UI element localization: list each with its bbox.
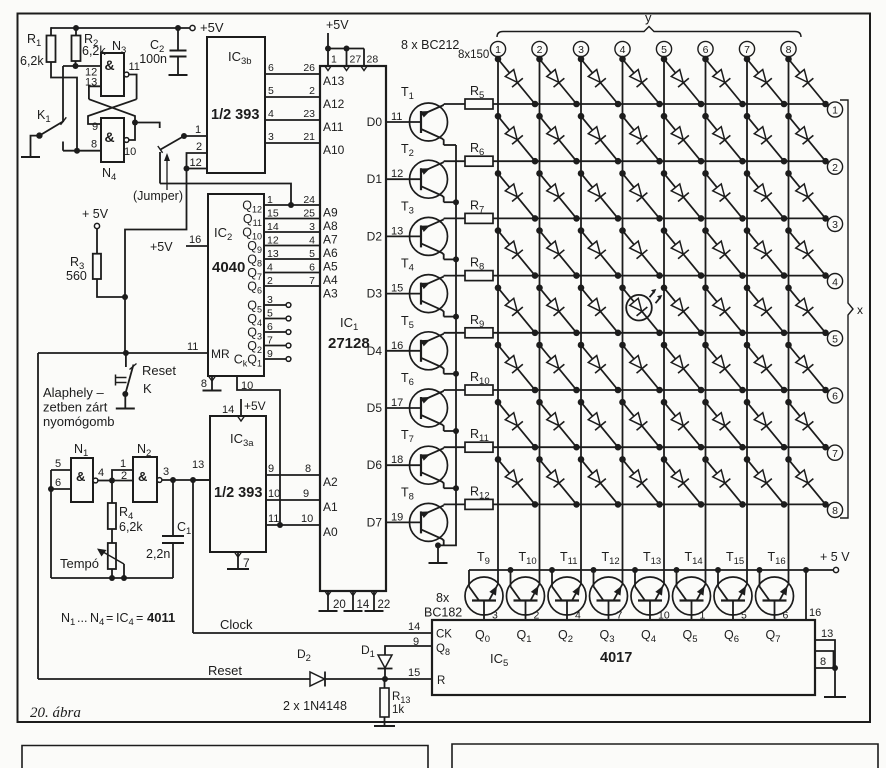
wire IC1 D6 (pin 18) to T7 base (386, 464, 421, 466)
node clock branch (190, 477, 196, 483)
IC U IC3b box (207, 37, 265, 173)
node pot wiper (121, 575, 127, 581)
LED row5 col8 (789, 288, 826, 333)
terminal column Y7 circled (739, 41, 754, 56)
svg-text:BC182: BC182 (424, 606, 462, 620)
svg-text:D1: D1 (367, 172, 383, 186)
svg-text:6: 6 (832, 391, 838, 403)
wire IC3b pin 5 to IC1 A12 (pin 2) (265, 96, 320, 98)
svg-text:14: 14 (357, 599, 370, 611)
wire IC3a pin9 to A2 (266, 474, 320, 476)
svg-text:4017: 4017 (600, 650, 632, 666)
svg-text:1: 1 (267, 194, 273, 206)
svg-text:(Jumper): (Jumper) (133, 189, 183, 203)
svg-text:12: 12 (190, 157, 202, 169)
svg-text:Reset: Reset (208, 663, 242, 678)
LED row4 col2 (540, 231, 577, 276)
svg-text:2 x 1N4148: 2 x 1N4148 (283, 699, 347, 713)
wire pin2/12 to reset net (125, 169, 187, 298)
LED row2 col1 (498, 116, 535, 161)
terminal column Y1 circled (490, 41, 505, 56)
transistor T7 BC212 (410, 446, 448, 484)
svg-text:23: 23 (303, 108, 315, 120)
wire IC2 Q8 to IC1 (pin 13 to 5) (264, 258, 320, 260)
LED row3 col3 (581, 173, 618, 218)
diode D1 (378, 655, 392, 668)
node N4 out / cross (132, 120, 138, 126)
transistor T16 BC182 (756, 577, 794, 615)
transistor T5 BC212 (410, 332, 448, 370)
svg-text:9: 9 (268, 463, 274, 475)
node T10 collector on +5V rail (508, 567, 514, 573)
transistor T12 BC182 (590, 577, 628, 615)
transistor T4 BC212 (410, 275, 448, 313)
svg-text:9: 9 (267, 348, 273, 360)
LED row3 col8 (789, 173, 826, 218)
svg-text:1: 1 (120, 458, 126, 470)
wire R2 top lead (75, 28, 77, 36)
wire T4 emitter to R8 (444, 275, 465, 277)
wire T1-T8 collector ground rail (438, 145, 456, 545)
svg-text:5: 5 (268, 85, 274, 97)
svg-text:560: 560 (66, 269, 87, 283)
svg-text:A2: A2 (323, 475, 338, 489)
svg-text:Tempó: Tempó (60, 556, 99, 571)
wire R3 bottom lead (97, 279, 125, 297)
svg-text:6: 6 (268, 62, 274, 74)
ground IC5 (824, 696, 846, 698)
svg-text:+ 5V: + 5V (82, 207, 109, 221)
resistor R10 (465, 385, 493, 395)
svg-text:15: 15 (391, 283, 403, 295)
svg-text:27128: 27128 (328, 335, 370, 352)
wire T2 emitter to R6 (444, 160, 465, 162)
LED row3 col1 (498, 173, 535, 218)
svg-text:5: 5 (832, 334, 838, 346)
terminal column Y5 circled (656, 41, 671, 56)
LED row4 col4 (623, 231, 660, 276)
node R2 / N3 pin 12 (73, 63, 79, 69)
LED row7 col7 (747, 402, 784, 447)
node T8 collector (435, 542, 441, 548)
svg-text:5: 5 (267, 308, 273, 320)
ground T1-T8 rail (429, 562, 448, 564)
ground reset button (116, 408, 135, 410)
resistor R13 1k (384, 679, 386, 688)
terminal row X3 circled (827, 216, 842, 231)
svg-text:2: 2 (196, 141, 202, 153)
node MR / reset button (123, 350, 129, 356)
ground C2 (169, 74, 188, 76)
wire IC3a pin11 to A0 (266, 524, 320, 526)
LED row3 col6 (706, 173, 743, 218)
node K1 common (36, 132, 42, 138)
transistor T2 BC212 (410, 160, 448, 198)
svg-text:A9: A9 (323, 206, 338, 220)
ground IC3a pin7 (227, 568, 249, 570)
svg-text:A1: A1 (323, 500, 338, 514)
svg-text:+5V: +5V (326, 18, 349, 32)
wire R2 bottom lead (75, 61, 77, 66)
svg-text:8: 8 (201, 378, 207, 390)
wire T6 emitter to R10 (444, 389, 465, 391)
ground IC1 pin14 (344, 610, 363, 612)
wire R3 top lead (96, 229, 98, 254)
svg-text:15: 15 (267, 208, 279, 220)
frame next-figure box right (cropped) (452, 744, 878, 768)
node IC3b pin12 corner (184, 166, 190, 172)
terminal +5V top-left (190, 25, 195, 30)
svg-text:13: 13 (267, 248, 279, 260)
wire cross A (N3 out to N4 pin 9) (88, 99, 137, 124)
gate N3 (4011 NAND) (101, 53, 124, 96)
pin N2 output 3 (157, 478, 162, 483)
svg-text:&: & (138, 469, 147, 484)
svg-text:4011: 4011 (147, 610, 175, 625)
wire IC2 Q7 to IC1 (pin 4 to 6) (264, 272, 320, 274)
node C1 branch (170, 477, 176, 483)
resistor R3 560 (93, 254, 101, 279)
svg-text:13: 13 (192, 459, 204, 471)
wire C2 top lead (177, 28, 179, 51)
svg-text:3: 3 (268, 131, 274, 143)
node IC1 pin1 +5V (325, 46, 331, 52)
LED row7 col3 (581, 402, 618, 447)
resistor R7 (465, 213, 493, 223)
svg-text:8: 8 (91, 139, 97, 151)
node D1 D2 R13 junction (382, 676, 388, 682)
wire N1 pin5 line (51, 469, 71, 471)
node IC3b pin1 / jumper (181, 133, 187, 139)
wire pot wiper to rail (123, 564, 125, 578)
capacitor C2 100n (170, 50, 187, 52)
svg-text:21: 21 (303, 131, 315, 143)
wire IC3b pin 3 to IC1 A10 (pin 21) (265, 142, 320, 144)
wire flipflop out to jumper contact (135, 123, 160, 129)
svg-text:A7: A7 (323, 233, 338, 247)
LED row8 col3 (581, 459, 618, 504)
svg-text:14: 14 (408, 621, 420, 633)
wire IC2 Q9 to IC1 (pin 12 to 4) (264, 245, 320, 247)
LED row1 col2 (540, 59, 577, 104)
LED row1 col6 (706, 59, 743, 104)
svg-text:6: 6 (309, 262, 315, 274)
wire oscillator bottom rail (51, 577, 173, 579)
svg-text:10: 10 (241, 380, 253, 392)
svg-text:2: 2 (309, 85, 315, 97)
node IC5 pin16 riser (803, 567, 809, 573)
svg-text:2: 2 (832, 162, 838, 174)
svg-text:+5V: +5V (150, 240, 173, 254)
LED row8 col5 (664, 459, 701, 504)
svg-text:nyomógomb: nyomógomb (43, 414, 115, 429)
pin IC2 Q5 open (pin 3) (264, 304, 286, 306)
svg-text:13: 13 (391, 225, 403, 237)
LED row1 col8 (789, 59, 826, 104)
node R3 / reset net (122, 294, 128, 300)
svg-text:12: 12 (267, 235, 279, 247)
pin N4 output 10 (124, 138, 129, 143)
wire IC3a pin10 to A1 (266, 499, 320, 501)
svg-text:7: 7 (309, 275, 315, 287)
svg-text:D4: D4 (367, 344, 383, 358)
svg-text:6,2k: 6,2k (20, 54, 44, 68)
pin IC2 8 ground (211, 376, 213, 391)
svg-text:1: 1 (832, 105, 838, 117)
svg-text:A11: A11 (323, 120, 344, 134)
svg-text:3: 3 (832, 219, 838, 231)
node T5 collector on ground rail (453, 371, 459, 377)
wire IC3b pin1 line (184, 135, 207, 137)
LED row5 col4 (623, 288, 660, 333)
LED row1 col7 (747, 59, 784, 104)
svg-text:7: 7 (243, 556, 250, 570)
svg-text:22: 22 (378, 599, 391, 611)
svg-text:A6: A6 (323, 246, 338, 260)
wire N1 out to N2 (98, 480, 112, 482)
pin IC1 bottom grounds (327, 591, 329, 611)
LED row8 col1 (498, 459, 535, 504)
LED row4 col8 (789, 231, 826, 276)
svg-text:4: 4 (309, 235, 315, 247)
LED row5 col5 (664, 288, 701, 333)
svg-text:3: 3 (267, 294, 273, 306)
IC U IC2 box (208, 194, 264, 376)
svg-text:3: 3 (163, 466, 169, 478)
node T2 collector on ground rail (453, 199, 459, 205)
LED row3 col5 (664, 173, 701, 218)
LED row1 col5 (664, 59, 701, 104)
wire row 7 line (493, 446, 826, 448)
node T4 collector on ground rail (453, 314, 459, 320)
terminal row X7 circled (827, 445, 842, 460)
svg-text:D7: D7 (367, 515, 383, 529)
wire column 4 line (622, 57, 624, 584)
wire N1 pin6 line (51, 488, 71, 490)
diode D2 (310, 672, 325, 686)
svg-text:D6: D6 (367, 458, 383, 472)
svg-text:+5V: +5V (244, 399, 266, 413)
LED row2 col7 (747, 116, 784, 161)
LED row5 col6 (706, 288, 743, 333)
wire reset net down to MR line (124, 297, 126, 353)
gate N1 (4011 NAND) (71, 458, 93, 502)
svg-text:10: 10 (124, 146, 136, 158)
wire N3 pin 13 line (89, 86, 101, 99)
svg-text:100n: 100n (139, 52, 167, 66)
svg-text:x: x (857, 303, 863, 317)
LED row6 col4 (623, 345, 660, 390)
LED row4 col6 (706, 231, 743, 276)
LED row7 col4 (623, 402, 660, 447)
svg-text:16: 16 (391, 340, 403, 352)
LED row6 col7 (747, 345, 784, 390)
terminal column Y4 circled (615, 41, 630, 56)
svg-text:D5: D5 (367, 401, 383, 415)
resistor R5 (465, 99, 493, 109)
wire R4 to pot (111, 529, 113, 543)
LED indicator circle (lit LED col4 row5) (626, 295, 652, 321)
resistor R1 (47, 36, 56, 63)
svg-text:7: 7 (267, 335, 273, 347)
svg-text:11: 11 (129, 61, 140, 73)
LED row2 col8 (789, 116, 826, 161)
wire row 5 line (493, 332, 826, 334)
terminal column Y6 circled (698, 41, 713, 56)
svg-text:A3: A3 (323, 287, 338, 301)
wire IC5 pin16 +5V (805, 570, 807, 620)
LED row4 col5 (664, 231, 701, 276)
LED row2 col5 (664, 116, 701, 161)
svg-text:7: 7 (832, 448, 838, 460)
svg-text:&: & (76, 469, 85, 484)
wire row 1 line (493, 103, 826, 105)
svg-text:3: 3 (309, 221, 315, 233)
transistor T9 BC182 (465, 577, 503, 615)
pin IC2 16 +5V (186, 245, 208, 247)
svg-text:Clock: Clock (220, 617, 253, 632)
node IC1 pin27 +5V (344, 46, 350, 52)
wire pot bottom lead (111, 569, 113, 578)
resistor R9 (465, 328, 493, 338)
wire K1 upper contact (from N3 pin12 net) (62, 66, 64, 121)
svg-text:=: = (136, 611, 143, 625)
pin N3 output 11 (124, 72, 129, 77)
svg-text:25: 25 (303, 208, 315, 220)
wire N1 left feedback (50, 470, 52, 578)
LED row4 col7 (747, 231, 784, 276)
svg-text:+ 5 V: + 5 V (820, 550, 850, 564)
node IC5 pin8 ground (832, 665, 838, 671)
pin IC3a 7 ground (237, 552, 239, 569)
LED row6 col3 (581, 345, 618, 390)
svg-text:24: 24 (303, 194, 315, 206)
brace y axis (497, 27, 801, 38)
svg-text:18: 18 (391, 454, 403, 466)
svg-text:zetben zárt: zetben zárt (43, 400, 108, 415)
LED row6 col5 (664, 345, 701, 390)
svg-text:26: 26 (303, 62, 315, 74)
svg-text:5: 5 (661, 44, 667, 56)
wire row 6 line (493, 389, 826, 391)
wire R13 to ground (384, 717, 386, 726)
svg-text:8 x BC212: 8 x BC212 (401, 38, 459, 52)
svg-text:8x150: 8x150 (458, 49, 489, 61)
LED row7 col2 (540, 402, 577, 447)
terminal row X5 circled (827, 331, 842, 346)
svg-text:1: 1 (195, 124, 201, 136)
svg-text:R: R (27, 32, 36, 46)
wire column 8 line (788, 57, 790, 584)
wire clock branch vertical (192, 480, 194, 633)
LED row3 col7 (747, 173, 784, 218)
resistor R2 (72, 36, 81, 62)
node T7 collector on ground rail (453, 485, 459, 491)
svg-text:y: y (645, 10, 652, 25)
wire N2 pin2 line (112, 480, 133, 482)
gate N4 (4011 NAND) (101, 118, 124, 162)
svg-text:6,2k: 6,2k (82, 44, 106, 58)
wire IC2 Q6 to IC1 (pin 2 to 7) (264, 285, 320, 287)
wire T9-T16 +5V rail (469, 569, 836, 571)
wire Reset line (38, 678, 310, 680)
wire +5V rail top-left (51, 27, 190, 29)
LED row5 col2 (540, 288, 577, 333)
svg-text:10: 10 (268, 488, 280, 500)
svg-text:MR: MR (211, 347, 230, 361)
svg-text:A12: A12 (323, 97, 345, 111)
ground K1 (21, 156, 40, 158)
svg-text:A5: A5 (323, 260, 338, 274)
arrow jumper position (166, 158, 168, 190)
transistor T15 BC182 (714, 577, 752, 615)
svg-text:5: 5 (309, 248, 315, 260)
svg-text:4: 4 (832, 276, 838, 288)
LED row5 col1 (498, 288, 535, 333)
wire T7 emitter to R11 (444, 446, 465, 448)
resistor R12 (465, 499, 493, 509)
svg-text:7: 7 (744, 44, 750, 56)
svg-text:Reset: Reset (142, 363, 176, 378)
wire IC1 D0 (pin 11) to T1 base (386, 121, 421, 123)
wire column 1 line (497, 57, 499, 584)
node C2 top (175, 25, 181, 31)
node R2 top (73, 25, 79, 31)
node pot bottom (109, 575, 115, 581)
wire IC3b pin2+pin12 loop (187, 153, 208, 169)
svg-text:14: 14 (222, 404, 234, 416)
pin N1 output 4 (93, 478, 98, 483)
wire T3 emitter to R7 (444, 217, 465, 219)
svg-text:A0: A0 (323, 525, 338, 539)
node T3 collector on ground rail (453, 256, 459, 262)
svg-text:4040: 4040 (212, 259, 245, 276)
node reset button bottom (122, 391, 128, 397)
terminal row X2 circled (827, 159, 842, 174)
wire IC1 D2 (pin 13) to T3 base (386, 235, 421, 237)
LED row6 col1 (498, 345, 535, 390)
node R1 / N4 pin 8 (74, 148, 80, 154)
wire IC2 Q10 to IC1 (pin 14 to 3) (264, 231, 320, 233)
svg-text:6: 6 (703, 44, 709, 56)
frame next-figure box left (cropped) (22, 746, 428, 768)
wire Q8 to D1 (385, 646, 432, 655)
transistor T8 BC212 (410, 503, 448, 541)
LED row8 col8 (789, 459, 826, 504)
svg-text:2: 2 (121, 470, 127, 482)
bracket x axis (840, 100, 853, 518)
capacitor C1 2,2n (172, 480, 174, 536)
IC U IC3a box (210, 416, 266, 552)
svg-text:K: K (143, 381, 152, 396)
wire T8 emitter to R12 (444, 503, 465, 505)
wire jumper lower contact (159, 152, 161, 184)
terminal row X8 circled (827, 502, 842, 517)
svg-text:8: 8 (786, 44, 792, 56)
LED row7 col1 (498, 402, 535, 447)
svg-text:1/2 393: 1/2 393 (211, 107, 259, 123)
transistor T10 BC182 (507, 577, 545, 615)
wire K1 common to ground (31, 136, 40, 157)
switch K1 arm (39, 121, 63, 136)
svg-text:A8: A8 (323, 219, 338, 233)
svg-text:5: 5 (55, 458, 61, 470)
svg-text:16: 16 (189, 234, 201, 246)
svg-text:14: 14 (267, 221, 279, 233)
wire IC1 D3 (pin 15) to T4 base (386, 293, 421, 295)
svg-text:4: 4 (620, 44, 626, 56)
svg-text:&: & (105, 57, 115, 73)
